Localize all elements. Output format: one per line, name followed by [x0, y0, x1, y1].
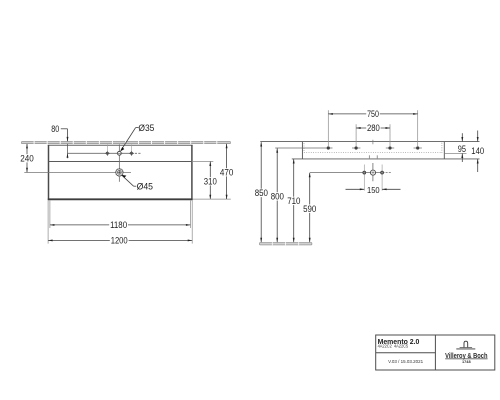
rear view: top edge line (extended both sides)	[260, 141, 479, 143]
dim 1180: arrowheads	[50, 224, 55, 226]
dim 850: dimension line	[260, 142, 262, 242]
dim 240: dimension line	[26, 144, 28, 172]
svg-text:1200: 1200	[111, 236, 128, 246]
dim Ø35: leader arrowhead	[120, 147, 124, 151]
svg-text:1748: 1748	[462, 360, 471, 364]
dim 850: arrowheads	[260, 142, 262, 147]
dim 710: dimension line	[293, 159, 295, 242]
dim 750: arrowheads	[328, 113, 333, 115]
dim 1180: dimension line	[50, 224, 191, 226]
dim 140: arrowheads	[477, 137, 479, 142]
svg-text:590: 590	[303, 204, 316, 214]
dim 590: arrowheads	[309, 173, 311, 178]
dim 710: label	[286, 197, 301, 205]
dim 710: arrowheads	[293, 159, 295, 164]
dim 280: arrowheads	[356, 127, 361, 129]
svg-text:1180: 1180	[110, 220, 127, 230]
svg-text:280: 280	[367, 123, 380, 133]
rear view: faucet hole center circle	[370, 170, 375, 175]
svg-text:V.03 / 15.03.2021: V.03 / 15.03.2021	[388, 359, 423, 365]
rear view: mounting hole 3	[388, 146, 391, 149]
rear view: left edge	[301, 142, 303, 159]
front view: faucet holes horizontal centerline	[68, 152, 134, 154]
rear view: faucet trio vertical centerline	[372, 163, 374, 181]
dim 150: arrowheads	[360, 188, 365, 190]
dim 590: label	[302, 205, 317, 213]
rear view: side hole extension verticals	[363, 165, 365, 191]
dim 280: label	[366, 124, 380, 132]
dim 470: dimension line	[226, 144, 228, 199]
svg-text:150: 150	[367, 185, 380, 195]
front view: basin left edge	[48, 145, 50, 200]
dim 140: dimension lines	[477, 131, 479, 142]
dim 1200: extension lines	[47, 201, 49, 244]
dim 1180: extension lines	[49, 201, 51, 229]
dim 470: bottom extension line	[193, 198, 231, 200]
svg-text:310: 310	[204, 177, 217, 187]
dim 280: dimension line	[356, 127, 390, 129]
svg-text:80: 80	[51, 124, 59, 134]
dim 470: label	[219, 168, 234, 176]
dim 240: label	[20, 154, 35, 162]
front view: wall/top ceramic band (segmented)	[22, 141, 231, 143]
rear view: faucet side hole left	[363, 171, 366, 174]
front view: basin bottom edge (thick)	[48, 198, 193, 200]
dim 310: arrowheads	[209, 162, 211, 167]
dim 470: arrowheads	[226, 144, 228, 149]
dim 750: dimension line	[328, 113, 417, 115]
dim 310: dimension line	[209, 162, 211, 200]
front view: basin top edge	[48, 144, 193, 146]
rear view: dotted vertical near left edge	[303, 143, 305, 152]
svg-text:240: 240	[20, 154, 34, 164]
title block: outer frame	[376, 335, 495, 370]
svg-text:Ø45: Ø45	[137, 181, 153, 191]
dim 1200: arrowheads	[48, 239, 53, 241]
dim 1200: label	[110, 236, 129, 244]
dim 310: extension line	[192, 161, 213, 163]
dim 95: dimension lines	[461, 133, 463, 141]
title block: horizontal divider	[376, 352, 436, 354]
svg-text:710: 710	[287, 196, 300, 206]
dim 800: label	[270, 192, 285, 200]
front view: center faucet hole Ø35	[117, 151, 121, 155]
dim 95: extension line	[444, 152, 466, 154]
dim Ø45: leader arrowhead	[122, 175, 127, 178]
dim 750: label	[366, 110, 380, 118]
dim 150: dimension lines	[346, 188, 365, 190]
rear view: top center tick	[372, 140, 374, 144]
dim 95: arrowheads	[461, 137, 463, 142]
dim 750: extension lines	[327, 110, 329, 146]
rear view: inner dotted line	[304, 152, 442, 154]
rear view: hole tick lines	[352, 147, 360, 149]
svg-text:800: 800	[271, 192, 284, 202]
svg-text:95: 95	[458, 144, 466, 154]
dim 80: leader and dimension line	[61, 128, 68, 130]
svg-text:750: 750	[367, 109, 379, 119]
dim 310: label	[203, 177, 218, 185]
dim 280: extension lines	[355, 124, 357, 146]
dim 1180: label	[109, 221, 128, 229]
front view: alt faucet hole mark right (cross)	[129, 151, 134, 156]
svg-text:Ø35: Ø35	[138, 123, 154, 133]
rear view: right edge	[443, 142, 445, 159]
rear view: mounting hole 1	[327, 146, 330, 149]
rear view: dotted vertical near right edge	[441, 143, 443, 154]
rear view: mounting hole 4	[416, 146, 419, 149]
rear view: floor band (segmented)	[260, 243, 312, 245]
front view: basin right edge	[191, 145, 193, 200]
front view: drain hole Ø45	[116, 169, 123, 176]
rear view: bottom center ticks	[368, 155, 370, 158]
rear view: mounting hole 2	[355, 146, 358, 149]
svg-text:4A22C2 4A22C5: 4A22C2 4A22C5	[378, 344, 409, 349]
dim 850: label	[254, 189, 269, 197]
front view: drain hole crosshair line	[24, 171, 131, 173]
dim Ø35: leader line	[136, 127, 139, 129]
rear view: bottom edge line (extended both sides)	[292, 158, 480, 160]
dim 80: arrowheads	[67, 137, 69, 142]
dim 590: dimension line	[309, 173, 311, 242]
dim 800: dimension line	[276, 148, 278, 242]
title block: vertical divider	[434, 335, 436, 370]
svg-text:850: 850	[255, 188, 268, 198]
front view: alt faucet hole mark left (cross)	[105, 151, 110, 156]
front view: vertical centerline through holes	[118, 144, 120, 182]
logo: aqueduct icon	[456, 341, 475, 349]
front view: faucet hole extension lines above	[106, 144, 108, 151]
front view: basin inner rim line	[49, 161, 192, 163]
rear view: mounting holes centerline	[275, 147, 332, 149]
logo: underline	[445, 358, 487, 361]
dim 240: arrowheads	[26, 144, 28, 149]
dim Ø45: leader line	[134, 185, 137, 187]
dim 800: arrowheads	[276, 148, 278, 153]
rear view: faucet trio horizontal centerline	[310, 172, 385, 174]
rear view: faucet side hole right	[381, 171, 384, 174]
dim 1200: dimension line	[48, 239, 192, 241]
svg-text:140: 140	[471, 146, 484, 156]
svg-text:470: 470	[220, 168, 234, 178]
